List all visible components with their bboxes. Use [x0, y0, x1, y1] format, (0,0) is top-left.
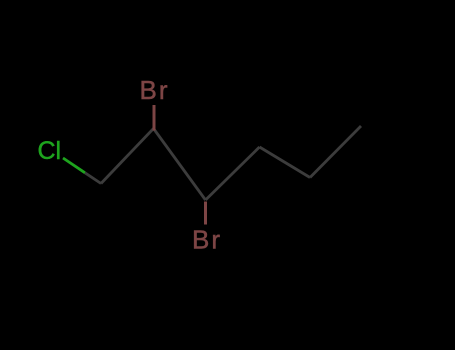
wire: bond C3-Br2 red stub: [204, 202, 207, 225]
svg-text:Br: Br: [192, 225, 222, 255]
svg-text:Cl: Cl: [38, 137, 62, 165]
wire: bond C5-C6: [310, 126, 361, 178]
wire: bond C3-C4: [206, 147, 260, 200]
wire: bond Cl-C1 green half: [63, 158, 85, 173]
svg-text:Br: Br: [140, 75, 170, 105]
wire: bond C4-C5: [260, 147, 311, 178]
wire: bond C1-C2: [101, 129, 154, 184]
wire: bond Cl-C1 carbon half: [85, 173, 101, 184]
wire: bond C2-Br1 red stub: [153, 105, 156, 131]
wire: bond C2-C3: [154, 129, 206, 201]
